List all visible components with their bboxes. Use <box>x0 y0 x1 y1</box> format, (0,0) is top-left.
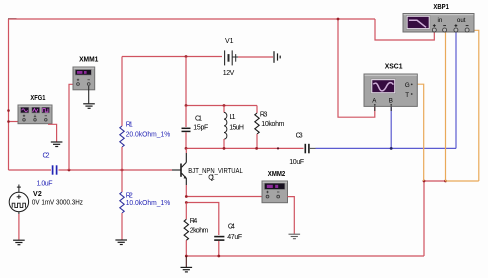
svg-text:0V 1mV 3000.3Hz: 0V 1mV 3000.3Hz <box>32 200 83 207</box>
resistor R3 <box>256 106 258 114</box>
wire XBP1 in+ branch <box>375 19 434 40</box>
node divider tap junction <box>121 169 124 172</box>
pin XSC1 A lead <box>374 106 376 111</box>
wire instrument ground bus orange <box>446 180 479 182</box>
wire bottom ground rail <box>186 255 424 257</box>
capacitor C4 <box>214 237 224 241</box>
wire XSC1 G orange <box>413 84 424 181</box>
svg-text:BJT_NPN_VIRTUAL: BJT_NPN_VIRTUAL <box>188 168 243 175</box>
svg-text:XBP1: XBP1 <box>433 4 449 11</box>
wire XSC1 A branch <box>338 19 375 117</box>
svg-text:C3: C3 <box>296 133 303 140</box>
svg-text:B: B <box>389 98 393 105</box>
svg-text:out: out <box>457 17 466 24</box>
wire emitter to XMM2 <box>186 196 262 198</box>
svg-text:G: G <box>405 82 410 89</box>
svg-text:10.0kOhm_1%: 10.0kOhm_1% <box>126 200 171 207</box>
ground below V2 <box>13 240 25 245</box>
battery V1 <box>225 50 238 65</box>
svg-text:L1: L1 <box>230 114 236 121</box>
capacitor C2 <box>53 165 57 174</box>
ground below R2 <box>115 240 127 245</box>
svg-text:C2: C2 <box>43 153 50 160</box>
pin XSC1 B lead <box>390 106 392 111</box>
svg-text:20.0kOhm_1%: 20.0kOhm_1% <box>126 131 171 138</box>
ground below XFG1 <box>51 142 63 147</box>
node input-left junction <box>7 109 10 112</box>
svg-text:Q1: Q1 <box>208 174 215 181</box>
node supply to collector branch junction <box>185 55 188 58</box>
svg-text:10kohm: 10kohm <box>261 121 284 128</box>
wire base net C2 to Q1 <box>59 169 173 171</box>
wire supply drop to collector rail <box>185 57 187 106</box>
svg-text:XSC1: XSC1 <box>385 64 403 71</box>
wire XMM1 branch <box>69 84 74 170</box>
wire emitter to C4 branch <box>186 203 219 236</box>
wire right riser to instruments ground bus <box>423 181 425 256</box>
node top rail to XSC1-A junction <box>337 18 340 21</box>
wire top rail input net <box>8 18 17 20</box>
function generator XFG1 <box>18 105 52 124</box>
wire XFG1 minus to ground <box>48 124 57 141</box>
ground below R4 <box>185 256 187 267</box>
svg-text:12V: 12V <box>223 70 235 77</box>
resistor R4 <box>185 203 187 220</box>
svg-text:XMM2: XMM2 <box>268 171 286 178</box>
wire XFG1 plus stub <box>9 121 21 123</box>
svg-text:15uH: 15uH <box>229 125 244 132</box>
ground below XMM2 <box>289 234 301 239</box>
wire XMM2 to ground <box>288 197 295 234</box>
svg-text:in: in <box>438 17 443 24</box>
capacitor C3 <box>305 144 309 154</box>
svg-text:R3: R3 <box>260 111 268 118</box>
resistor R2 <box>121 170 123 192</box>
svg-text:V1: V1 <box>225 38 234 45</box>
wire V2 to ground <box>18 214 20 240</box>
svg-text:T: T <box>405 92 409 99</box>
wire XBP1 in- orange <box>445 30 447 182</box>
source V2 <box>9 185 28 215</box>
wire collector bottom rail <box>186 147 304 149</box>
multimeter XMM1 <box>73 67 95 90</box>
wire XBP1 out+ branch blue <box>455 30 457 149</box>
capacitor C1 <box>185 106 187 128</box>
multimeter XMM2 <box>262 181 288 203</box>
bode plotter XBP1 <box>403 14 474 33</box>
svg-text:10uF: 10uF <box>289 159 304 166</box>
node XMM1 tap junction <box>68 169 71 172</box>
ground sideways at V1 <box>274 51 280 63</box>
svg-text:XFG1: XFG1 <box>30 95 45 102</box>
inductor L1 <box>223 106 225 113</box>
svg-text:R1: R1 <box>126 122 133 129</box>
resistor R1 <box>121 57 123 127</box>
svg-text:XMM1: XMM1 <box>79 57 98 64</box>
wire XMM1 minus to ground <box>88 86 90 103</box>
node waypoint on output rail <box>277 147 279 149</box>
wire V1 to ground <box>238 56 273 58</box>
wire left vertical input net <box>8 19 10 170</box>
transistor Q1 <box>172 153 186 185</box>
svg-text:2kohm: 2kohm <box>190 227 209 234</box>
svg-text:V2: V2 <box>33 191 42 198</box>
svg-text:C4: C4 <box>228 223 235 230</box>
svg-text:R2: R2 <box>126 192 133 199</box>
svg-text:R4: R4 <box>190 218 198 225</box>
svg-text:15pF: 15pF <box>193 125 208 132</box>
wire XSC1 B branch blue <box>390 107 392 148</box>
svg-text:C1: C1 <box>195 115 202 122</box>
wire XBP1 out- orange <box>467 30 479 181</box>
wire collector top rail <box>186 105 257 107</box>
ground below XMM1 <box>83 104 95 109</box>
svg-text:47uF: 47uF <box>227 234 242 241</box>
svg-text:1.0uF: 1.0uF <box>37 181 53 188</box>
wire supply rail <box>122 56 222 58</box>
oscilloscope XSC1 <box>364 74 417 106</box>
wire C2 left <box>9 169 52 171</box>
wire output net blue <box>316 147 457 149</box>
